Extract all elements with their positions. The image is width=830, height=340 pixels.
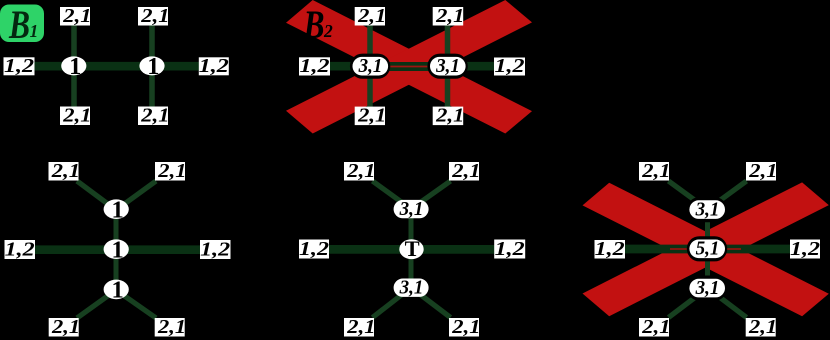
svg-text:1: 1 xyxy=(147,53,159,80)
svg-text:1,2: 1,2 xyxy=(300,55,330,77)
svg-text:2,1: 2,1 xyxy=(140,5,169,27)
svg-text:1,2: 1,2 xyxy=(199,55,229,77)
svg-text:2,1: 2,1 xyxy=(357,5,386,27)
svg-text:1,2: 1,2 xyxy=(595,238,625,260)
svg-text:1: 1 xyxy=(111,236,123,263)
svg-text:1,2: 1,2 xyxy=(790,238,820,260)
svg-text:2,1: 2,1 xyxy=(451,316,480,338)
svg-text:2,1: 2,1 xyxy=(641,160,670,182)
svg-text:2,1: 2,1 xyxy=(451,160,480,182)
svg-text:3,1: 3,1 xyxy=(435,55,460,77)
svg-text:T: T xyxy=(405,236,420,261)
svg-text:1,2: 1,2 xyxy=(200,239,230,261)
svg-text:2,1: 2,1 xyxy=(435,105,464,127)
svg-text:1,2: 1,2 xyxy=(495,238,525,260)
svg-text:2,1: 2,1 xyxy=(748,160,777,182)
svg-text:2,1: 2,1 xyxy=(51,160,80,182)
svg-text:1: 1 xyxy=(111,196,123,223)
svg-text:B: B xyxy=(8,2,30,47)
svg-text:3,1: 3,1 xyxy=(695,198,720,220)
svg-text:3,1: 3,1 xyxy=(695,277,720,299)
svg-text:2,1: 2,1 xyxy=(346,316,375,338)
svg-text:3,1: 3,1 xyxy=(358,55,383,77)
svg-text:2,1: 2,1 xyxy=(357,105,386,127)
svg-text:2,1: 2,1 xyxy=(140,105,169,127)
svg-text:2,1: 2,1 xyxy=(641,316,670,338)
svg-text:3,1: 3,1 xyxy=(399,198,424,220)
svg-text:2: 2 xyxy=(323,21,333,41)
svg-text:2,1: 2,1 xyxy=(51,316,80,338)
svg-text:2,1: 2,1 xyxy=(157,316,186,338)
svg-text:2,1: 2,1 xyxy=(346,160,375,182)
svg-text:2,1: 2,1 xyxy=(435,5,464,27)
svg-text:1: 1 xyxy=(30,21,39,41)
svg-text:3,1: 3,1 xyxy=(399,277,424,299)
svg-text:1,2: 1,2 xyxy=(5,239,35,261)
svg-text:1: 1 xyxy=(69,53,81,80)
svg-text:2,1: 2,1 xyxy=(157,160,186,182)
svg-text:5,1: 5,1 xyxy=(696,238,720,260)
svg-text:B: B xyxy=(303,2,325,47)
svg-text:1,2: 1,2 xyxy=(299,238,329,260)
svg-text:1: 1 xyxy=(111,277,123,304)
svg-text:2,1: 2,1 xyxy=(748,316,777,338)
svg-text:1,2: 1,2 xyxy=(4,55,34,77)
svg-text:1,2: 1,2 xyxy=(495,55,525,77)
svg-text:2,1: 2,1 xyxy=(62,105,91,127)
svg-text:2,1: 2,1 xyxy=(62,5,91,27)
